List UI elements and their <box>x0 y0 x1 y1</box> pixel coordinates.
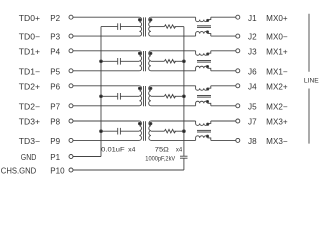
svg-text:P6: P6 <box>50 82 60 91</box>
pin J4 terminal <box>236 84 240 88</box>
choke L3 bottom winding <box>196 101 211 106</box>
junction resistor bus ch2 <box>183 60 186 63</box>
junction resistor bus ch4 <box>183 130 186 133</box>
wire choke L1 to J pin top <box>211 16 236 18</box>
choke L2 core <box>197 60 211 62</box>
svg-text:TD0+: TD0+ <box>19 14 41 23</box>
pin P8 terminal <box>69 119 73 123</box>
wire choke L2 to J pin bottom <box>211 70 236 72</box>
phase dot T1 primary <box>138 19 140 21</box>
phase dot L1 bottom <box>206 31 208 33</box>
wire choke L2 to J pin top <box>211 50 236 52</box>
svg-text:MX1+: MX1+ <box>266 47 288 56</box>
wire P3 to transformer T1 primary bottom <box>73 35 139 37</box>
pin J7 terminal <box>236 119 240 123</box>
wire cap C4 left lead <box>101 130 117 132</box>
phase dot T4 secondary <box>150 122 152 124</box>
choke L4 top winding <box>196 121 211 125</box>
choke L2 bottom winding <box>196 66 211 71</box>
svg-text:P10: P10 <box>50 167 65 176</box>
transformer T2 core <box>143 51 145 71</box>
choke L2 top winding <box>196 51 211 55</box>
wire choke L4 to J pin top <box>211 120 236 122</box>
pin J2 terminal <box>236 34 240 38</box>
choke L4 core <box>197 129 211 131</box>
svg-text:P9: P9 <box>50 137 60 146</box>
phase dot L3 bottom <box>206 101 208 103</box>
phase dot L2 bottom <box>206 66 208 68</box>
LINE bracket upper <box>308 14 310 72</box>
junction cap bus ch4 <box>100 130 103 133</box>
wire secondary bottom to choke L3 <box>151 105 196 107</box>
svg-text:GND: GND <box>21 153 37 162</box>
capacitor C4 0.01uF <box>117 128 119 135</box>
choke L1 bottom winding <box>196 32 211 37</box>
svg-text:TD2+: TD2+ <box>19 82 41 91</box>
resistor R3 75 ohm <box>164 95 175 99</box>
wire secondary top to choke L4 <box>151 120 196 122</box>
wire R1 to resistor bus <box>174 26 184 28</box>
wire P7 to transformer T3 primary bottom <box>73 105 139 107</box>
pin P9 terminal <box>69 138 73 142</box>
wire P6 to transformer T3 primary top <box>73 85 139 87</box>
transformer T4 secondary winding <box>149 121 151 140</box>
svg-text:J2: J2 <box>248 33 257 42</box>
phase dot T4 primary <box>138 122 140 124</box>
svg-text:MX0+: MX0+ <box>266 14 288 23</box>
phase dot T2 primary <box>138 52 140 54</box>
svg-text:J6: J6 <box>248 67 257 76</box>
pin J5 terminal <box>236 104 240 108</box>
svg-text:MX2−: MX2− <box>266 102 288 111</box>
wire cap C2 left lead <box>101 60 117 62</box>
wire cap C3 left lead <box>101 95 117 97</box>
transformer T1 primary winding <box>139 17 141 36</box>
transformer T1 secondary winding <box>149 17 151 36</box>
pin P1 terminal <box>69 155 73 159</box>
wire cap C1 left lead <box>101 26 117 28</box>
transformer T3 core <box>143 86 145 106</box>
choke L3 core <box>197 95 211 97</box>
wire cap C2 to primary centre tap <box>120 60 139 62</box>
wire secondary top to choke L3 <box>151 85 196 87</box>
svg-text:MX3−: MX3− <box>266 137 288 146</box>
capacitor C3 0.01uF <box>117 93 119 100</box>
wire secondary centre tap to R2 <box>151 60 164 62</box>
resistor R4 75 ohm <box>164 129 175 133</box>
svg-text:J4: J4 <box>248 82 257 91</box>
svg-text:1000pF,2kV: 1000pF,2kV <box>145 156 175 163</box>
phase dot L4 bottom <box>206 135 208 137</box>
choke L1 core <box>197 25 211 27</box>
svg-text:MX3+: MX3+ <box>266 118 288 127</box>
wire C5 to CHS.GND <box>183 158 185 170</box>
wire choke L4 to J pin bottom <box>211 139 236 141</box>
svg-text:x4: x4 <box>128 146 136 153</box>
choke L4 bottom winding <box>196 136 211 141</box>
wire secondary top to choke L1 <box>151 16 196 18</box>
svg-text:TD2−: TD2− <box>19 102 41 111</box>
svg-text:MX2+: MX2+ <box>266 82 288 91</box>
wire choke L1 to J pin bottom <box>211 35 236 37</box>
transformer T4 primary winding <box>139 121 141 140</box>
pin P10 terminal <box>69 168 73 172</box>
svg-text:J3: J3 <box>248 47 257 56</box>
wire R3 to resistor bus <box>174 95 184 97</box>
phase dot T3 secondary <box>150 87 152 89</box>
wire choke L3 to J pin top <box>211 85 236 87</box>
pin P5 terminal <box>69 69 73 73</box>
pin P6 terminal <box>69 84 73 88</box>
wire secondary centre tap to R4 <box>151 130 164 132</box>
transformer T4 core <box>143 121 145 141</box>
svg-text:P2: P2 <box>50 14 60 23</box>
svg-text:P8: P8 <box>50 118 60 127</box>
phase dot T3 primary <box>138 87 140 89</box>
svg-text:P7: P7 <box>50 102 60 111</box>
LINE bracket lower <box>308 89 310 144</box>
pin P4 terminal <box>69 49 73 53</box>
svg-text:J7: J7 <box>248 118 257 127</box>
wire choke L3 to J pin bottom <box>211 105 236 107</box>
wire cap C4 to primary centre tap <box>120 130 139 132</box>
svg-text:x4: x4 <box>176 146 183 153</box>
phase dot L2 top <box>207 53 209 55</box>
svg-text:J8: J8 <box>248 137 257 146</box>
wire R4 to resistor bus <box>174 130 184 132</box>
wire secondary bottom to choke L1 <box>151 35 196 37</box>
svg-text:CHS.GND: CHS.GND <box>1 167 37 176</box>
wire cap C1 to primary centre tap <box>120 26 139 28</box>
transformer T3 secondary winding <box>149 86 151 106</box>
svg-text:J5: J5 <box>248 102 257 111</box>
pin J1 terminal <box>236 15 240 19</box>
phase dot T1 secondary <box>150 19 152 21</box>
wire P9 to transformer T4 primary bottom <box>73 139 139 141</box>
capacitor bus to GND <box>100 27 102 157</box>
phase dot L1 top <box>207 19 209 21</box>
wire P10 CHS.GND <box>73 169 184 171</box>
svg-text:MX0−: MX0− <box>266 33 288 42</box>
capacitor C2 0.01uF <box>117 58 119 65</box>
svg-text:MX1−: MX1− <box>266 67 288 76</box>
junction cap bus ch3 <box>100 95 103 98</box>
pin P7 terminal <box>69 104 73 108</box>
capacitor C1 0.01uF <box>117 23 119 30</box>
transformer T2 primary winding <box>139 51 141 71</box>
choke L3 top winding <box>196 86 211 90</box>
svg-text:LINE: LINE <box>304 78 319 85</box>
wire secondary bottom to choke L2 <box>151 70 196 72</box>
pin P3 terminal <box>69 34 73 38</box>
pin J8 terminal <box>236 138 240 142</box>
phase dot L3 top <box>207 88 209 90</box>
transformer T3 primary winding <box>139 86 141 106</box>
resistor bus <box>183 27 185 157</box>
pin J3 terminal <box>236 49 240 53</box>
resistor R2 75 ohm <box>164 60 175 64</box>
wire P4 to transformer T2 primary top <box>73 50 139 52</box>
svg-text:TD3−: TD3− <box>19 137 41 146</box>
svg-text:TD1+: TD1+ <box>19 47 41 56</box>
wire secondary top to choke L2 <box>151 50 196 52</box>
svg-text:J1: J1 <box>248 14 257 23</box>
svg-text:P3: P3 <box>50 33 60 42</box>
resistor R1 75 ohm <box>164 25 175 29</box>
wire P1 GND to cap bus <box>73 156 101 158</box>
wire secondary centre tap to R3 <box>151 95 164 97</box>
svg-text:TD0−: TD0− <box>19 33 41 42</box>
wire P5 to transformer T2 primary bottom <box>73 70 139 72</box>
junction resistor bus ch3 <box>183 95 186 98</box>
wire P2 to transformer T1 primary top <box>73 16 139 18</box>
wire P8 to transformer T4 primary top <box>73 120 139 122</box>
junction cap bus ch2 <box>100 60 103 63</box>
transformer T1 core <box>143 17 145 36</box>
svg-text:0.01uF: 0.01uF <box>101 146 124 153</box>
svg-text:P4: P4 <box>50 47 60 56</box>
transformer T2 secondary winding <box>149 51 151 71</box>
svg-text:P5: P5 <box>50 67 60 76</box>
pin J6 terminal <box>236 69 240 73</box>
choke L1 top winding <box>196 17 211 21</box>
wire secondary bottom to choke L4 <box>151 139 196 141</box>
svg-text:P1: P1 <box>50 153 60 162</box>
wire cap C3 to primary centre tap <box>120 95 139 97</box>
capacitor C5 1000pF 2kV <box>180 155 188 157</box>
wire R2 to resistor bus <box>174 60 184 62</box>
svg-text:TD1−: TD1− <box>19 67 41 76</box>
phase dot L4 top <box>207 123 209 125</box>
phase dot T2 secondary <box>150 52 152 54</box>
svg-text:75Ω: 75Ω <box>155 146 169 153</box>
wire secondary centre tap to R1 <box>151 26 164 28</box>
svg-text:TD3+: TD3+ <box>19 118 41 127</box>
pin P2 terminal <box>69 15 73 19</box>
